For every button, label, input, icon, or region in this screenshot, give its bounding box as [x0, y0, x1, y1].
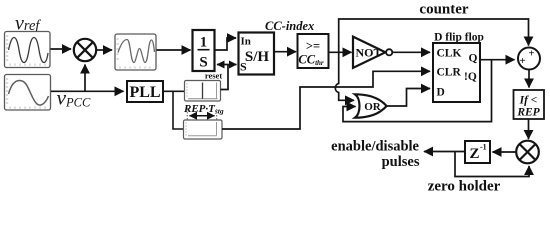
OR gate — [355, 94, 387, 117]
scope box product — [115, 34, 156, 70]
wire Q feedback to OR input 2 — [343, 60, 492, 122]
wire summation to If REP — [528, 70, 530, 88]
D flip flop block — [433, 43, 480, 102]
svg-text:Q: Q — [469, 53, 478, 65]
svg-text:pulses: pulses — [382, 154, 420, 170]
svg-text:>=: >= — [306, 39, 320, 53]
wire If REP to multiplier M2 — [528, 119, 530, 139]
wire integrator to S/H — [215, 38, 237, 50]
wire product to integrator — [157, 49, 191, 51]
svg-text:S/H: S/H — [245, 49, 270, 65]
svg-text:1: 1 — [200, 35, 208, 51]
wire reset to integrator and S/H — [221, 65, 229, 90]
integrator block 1/S — [193, 30, 215, 71]
svg-text:If <: If < — [519, 95, 538, 107]
measurement arrow REP window — [190, 115, 215, 117]
Z block (unit delay) — [465, 141, 490, 163]
wire v_PCC to PLL — [51, 90, 124, 92]
If < REP block — [514, 90, 545, 119]
svg-text:enable/disable: enable/disable — [331, 139, 419, 155]
product waveform — [118, 40, 155, 63]
PLL block — [127, 81, 163, 102]
reset pulse scope — [185, 81, 221, 102]
NOT gate — [353, 37, 392, 68]
svg-text:!Q: !Q — [464, 71, 477, 83]
NOT bubble — [386, 49, 392, 55]
wire S/H to comparator — [274, 51, 296, 53]
scope box v_ref — [5, 32, 51, 68]
v_ref waveform — [9, 38, 49, 63]
svg-text:S: S — [240, 60, 247, 74]
S/H block — [239, 33, 275, 75]
svg-text:PLL: PLL — [129, 84, 160, 101]
multiplier M2 (zero holder) — [516, 141, 539, 164]
comparator block — [298, 34, 329, 68]
wire Z to enable/disable output — [424, 151, 465, 153]
svg-text:NOT: NOT — [355, 46, 381, 60]
scope box v_PCC — [5, 75, 51, 111]
svg-text:S: S — [199, 55, 207, 71]
wire PLL to reset pulse scope — [163, 90, 184, 92]
wire window to CLR — [222, 71, 430, 129]
svg-text:CLR: CLR — [437, 67, 462, 79]
multiplier M1 — [74, 39, 96, 61]
svg-text:REP: REP — [516, 107, 540, 119]
svg-text:CC-index: CC-index — [265, 19, 314, 33]
svg-text:zero holder: zero holder — [428, 179, 501, 195]
svg-text:-1: -1 — [480, 143, 487, 152]
svg-text:OR: OR — [364, 101, 382, 113]
svg-text:Z: Z — [469, 146, 479, 162]
wire comparator to NOT — [329, 51, 352, 53]
svg-text:D: D — [437, 87, 445, 99]
summation S1 — [518, 48, 540, 70]
svg-text:In: In — [241, 36, 251, 48]
wire OR to D input — [387, 89, 430, 107]
wire PLL branch to window scope — [173, 91, 183, 129]
svg-text:+: + — [519, 55, 525, 67]
wire v_ref to multiplier — [51, 48, 72, 50]
wire comparator to OR input 1 (hop over CLR wire) — [335, 52, 354, 100]
wire multiplier to product scope — [96, 49, 112, 51]
wire M2 to Z block — [493, 151, 517, 153]
svg-text:counter: counter — [419, 2, 468, 18]
svg-text:CLK: CLK — [437, 48, 462, 60]
wire Q to summation — [480, 59, 515, 61]
wire NOT to CLK — [392, 51, 430, 53]
window scope box — [184, 120, 223, 139]
svg-text:+: + — [528, 48, 534, 60]
dotted guides — [186, 109, 188, 120]
reset pulse spike — [202, 83, 204, 99]
v_PCC waveform — [9, 81, 49, 106]
wire comparator to counter line — [339, 19, 529, 52]
wire v_PCC branch to multiplier — [84, 65, 86, 92]
svg-text:reset: reset — [205, 71, 222, 81]
zero holder feedback wire — [455, 152, 529, 177]
svg-text:D flip flop: D flip flop — [434, 32, 484, 44]
